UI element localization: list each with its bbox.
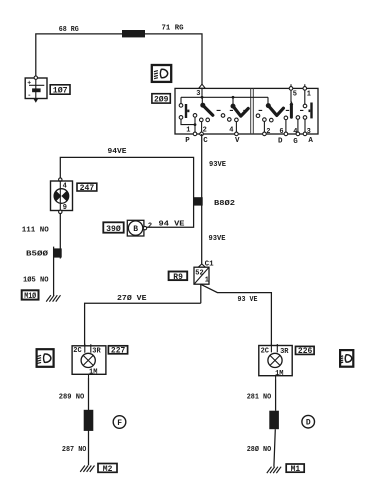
svg-text:F: F	[117, 419, 122, 428]
svg-text:M1Ø: M1Ø	[24, 292, 36, 301]
svg-text:V: V	[235, 137, 240, 145]
headlight icon (bottom left)	[37, 349, 54, 367]
svg-text:3R: 3R	[92, 348, 101, 356]
contact circles V group	[221, 114, 225, 118]
svg-text:G: G	[293, 138, 298, 146]
svg-text:281 NO: 281 NO	[247, 393, 272, 401]
inline connector B802	[193, 197, 202, 205]
ground (M2)	[80, 466, 94, 472]
svg-text:226: 226	[298, 347, 313, 356]
svg-text:4: 4	[229, 127, 233, 135]
svg-text:52: 52	[195, 269, 203, 277]
svg-text:94VE: 94VE	[108, 148, 128, 156]
wire pin1/P column	[181, 117, 195, 133]
wire pin2/C column	[201, 122, 203, 133]
svg-text:5: 5	[293, 90, 297, 98]
internal bus wire from pin 3	[181, 88, 268, 105]
headlight icon (bottom right)	[340, 350, 354, 367]
svg-text:1: 1	[186, 127, 190, 135]
svg-text:287 NO: 287 NO	[62, 446, 87, 454]
label box 107	[50, 85, 70, 96]
label box 226	[296, 346, 315, 356]
contact circles pin 2/C	[200, 118, 204, 122]
contact circle near divider	[256, 114, 260, 118]
svg-text:2: 2	[148, 223, 152, 231]
svg-text:39Ø: 39Ø	[106, 225, 121, 234]
svg-text:1Ø7: 1Ø7	[53, 86, 68, 95]
svg-text:27Ø VE: 27Ø VE	[117, 294, 147, 303]
svg-text:4: 4	[63, 182, 67, 190]
inline connector (left)	[84, 410, 94, 431]
pin 5 top stub and feed	[290, 84, 292, 102]
svg-text:B: B	[133, 225, 138, 234]
svg-text:289 NO: 289 NO	[59, 394, 85, 402]
svg-text:M1: M1	[291, 465, 301, 474]
timer unit 390 with pin B	[127, 220, 152, 236]
open contact circle under lever	[270, 118, 274, 122]
svg-text:3: 3	[196, 90, 200, 98]
inline connector (right)	[269, 411, 279, 430]
contact blade A	[309, 103, 313, 119]
svg-text:A: A	[308, 137, 313, 145]
svg-text:1Ø5 NO: 1Ø5 NO	[23, 275, 49, 284]
lighting switch unit 209: outer box	[175, 88, 318, 134]
svg-text:93 VE: 93 VE	[238, 296, 258, 304]
flasher unit 247	[51, 178, 73, 214]
svg-text:93VE: 93VE	[209, 235, 226, 243]
wire 270 VE: C1 to left indicator lamp 227	[85, 284, 201, 345]
inline connector B500	[53, 248, 62, 257]
pin 4/G column	[296, 116, 300, 120]
svg-text:28Ø NO: 28Ø NO	[247, 445, 272, 454]
wire pin4/V column	[235, 122, 237, 133]
headlight icon (top, near switch)	[152, 65, 171, 82]
label box M2	[98, 464, 117, 474]
svg-text:227: 227	[111, 347, 126, 356]
battery 107	[25, 76, 47, 103]
svg-text:C1: C1	[205, 260, 215, 268]
mechanical coupling dashed line	[217, 109, 304, 111]
svg-text:M2: M2	[103, 465, 113, 474]
svg-text:9: 9	[63, 204, 67, 212]
label box 227	[108, 346, 127, 356]
indicator lamp 226	[259, 344, 292, 380]
wire 281/280 NO: lamp 226 to ground M1	[274, 380, 276, 467]
label box M10	[22, 290, 39, 301]
svg-text:D: D	[306, 419, 311, 428]
edge pin circle V	[235, 132, 239, 136]
pin 3 entry connector triangle	[199, 84, 205, 88]
switch lever C	[200, 103, 213, 116]
wire 93 VE: switch pin C down to junction unit C1	[201, 134, 203, 264]
contact P: fixed contacts and blade	[179, 104, 189, 120]
wire 68RG/71RG battery to switch pin 3	[36, 34, 202, 85]
svg-text:1: 1	[307, 90, 311, 98]
svg-text:2C: 2C	[261, 347, 269, 355]
plunger lever G (thick bar with arrow tip)	[290, 101, 294, 118]
svg-text:2: 2	[266, 128, 270, 136]
label box 390	[103, 222, 123, 234]
junction unit C1 pin 52/1	[194, 264, 209, 285]
svg-text:71 RG: 71 RG	[162, 25, 184, 33]
switch lever V (first V lever)	[231, 104, 249, 117]
svg-text:1M: 1M	[275, 370, 283, 378]
junction node dots	[201, 96, 204, 99]
svg-text:R9: R9	[173, 273, 183, 282]
svg-text:B5ØØ: B5ØØ	[26, 249, 49, 258]
wire 289/287 NO: lamp 227 to ground M2	[88, 378, 90, 465]
wire 93 VE: C1 to right indicator lamp 226	[201, 284, 272, 345]
connector letter D	[302, 415, 315, 428]
wire flasher to ground M10	[54, 214, 61, 296]
svg-text:2C: 2C	[73, 347, 81, 355]
svg-text:2Ø9: 2Ø9	[154, 95, 169, 104]
label box R9	[169, 272, 188, 282]
svg-text:B8Ø2: B8Ø2	[214, 199, 236, 208]
svg-text:247: 247	[80, 184, 95, 193]
pin 2/D column	[263, 118, 267, 122]
svg-text:1: 1	[205, 277, 209, 285]
fuse (inline connector) on supply wire	[122, 30, 145, 37]
label box 209	[152, 94, 170, 105]
svg-text:68 RG: 68 RG	[59, 26, 79, 34]
connector letter F	[113, 416, 126, 429]
edge pin circle C	[200, 132, 204, 136]
switch lever (second V lever, right section)	[266, 103, 284, 115]
svg-text:93VE: 93VE	[209, 161, 226, 169]
svg-text:94 VE: 94 VE	[159, 220, 186, 228]
switch section divider	[251, 88, 254, 134]
label box 247	[77, 183, 97, 193]
svg-text:6: 6	[279, 128, 283, 136]
svg-text:C: C	[203, 137, 208, 145]
label box M1	[286, 464, 304, 474]
ground (M10)	[46, 295, 60, 301]
wire 94 VE: flasher to connector column down to timer 390	[60, 157, 193, 227]
svg-text:111 NO: 111 NO	[22, 226, 49, 234]
svg-text:P: P	[185, 137, 190, 145]
pin 6 column	[284, 116, 288, 120]
edge pin circle P	[193, 132, 197, 136]
svg-text:-: -	[27, 92, 31, 99]
ground (M1)	[267, 467, 281, 473]
indicator lamp 227	[72, 344, 106, 378]
svg-text:3R: 3R	[280, 348, 289, 356]
svg-text:1M: 1M	[89, 368, 97, 376]
pin 1 top stub and column	[304, 84, 306, 133]
svg-text:D: D	[278, 137, 283, 145]
